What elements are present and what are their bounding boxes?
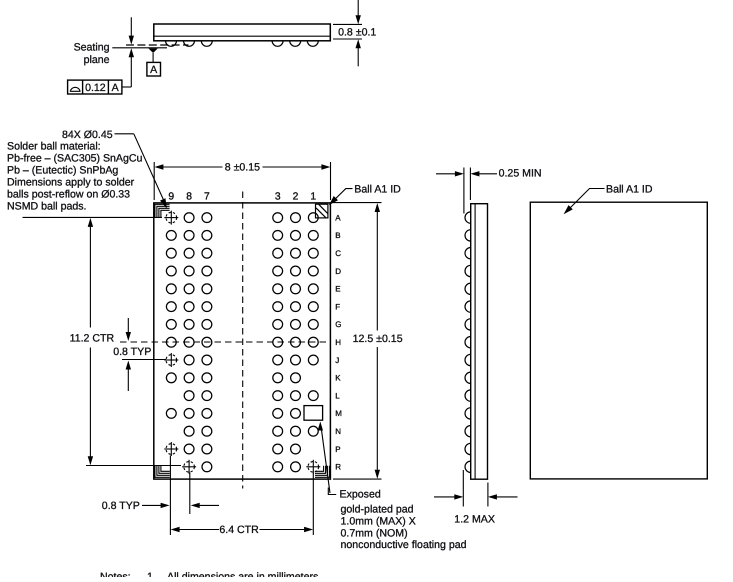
svg-text:B: B (335, 231, 340, 240)
svg-text:12.5 ±0.15: 12.5 ±0.15 (353, 333, 403, 345)
11.2 CTR dimension (left) (23, 217, 182, 465)
ball A1 ID corner mark (square + stripe) (316, 204, 329, 218)
solder balls (side view bottom) (166, 41, 319, 47)
svg-text:A: A (335, 213, 341, 222)
1.2 MAX dimension (434, 470, 518, 507)
svg-text:1: 1 (310, 192, 316, 203)
svg-text:1.0mm (MAX) X: 1.0mm (MAX) X (341, 515, 416, 527)
svg-text:6.4 CTR: 6.4 CTR (219, 524, 259, 536)
horizontal center line row H (dashed) (120, 341, 331, 343)
svg-text:Seating: Seating (74, 41, 110, 53)
svg-text:9: 9 (168, 192, 174, 203)
package body (edge view) (471, 204, 488, 480)
exposed pad callout (321, 426, 330, 494)
svg-text:A: A (150, 64, 158, 76)
svg-text:1.2 MAX: 1.2 MAX (454, 513, 495, 525)
svg-text:G: G (335, 320, 341, 329)
svg-text:0.8 TYP: 0.8 TYP (102, 500, 140, 512)
8 +-0.15 dimension (top) (154, 162, 330, 200)
svg-text:N: N (335, 427, 341, 436)
svg-text:3: 3 (275, 192, 281, 203)
svg-text:Solder ball material:: Solder ball material: (7, 141, 101, 153)
corner step mark bottom-right (315, 466, 330, 478)
svg-text:Pb-free – (SAC305) SnAgCu: Pb-free – (SAC305) SnAgCu (7, 153, 143, 165)
flatness symbol (70, 87, 81, 91)
svg-text:84X Ø0.45: 84X Ø0.45 (62, 129, 113, 141)
6.4 CTR dimension (bottom) (170, 456, 313, 536)
svg-text:H: H (335, 338, 341, 347)
column labels (168, 192, 316, 203)
dimension arrows at seating plane (130, 17, 132, 42)
package body (side view) (154, 24, 330, 41)
svg-text:nonconductive floating pad: nonconductive floating pad (341, 539, 467, 551)
package outline (bottom view) (154, 203, 331, 479)
svg-text:gold-plated pad: gold-plated pad (341, 504, 414, 516)
12.5 +-0.15 dimension (right of bottom view) (333, 203, 382, 480)
svg-text:C: C (335, 249, 341, 258)
svg-text:0.25 MIN: 0.25 MIN (499, 168, 542, 180)
corner step mark bottom-left (155, 466, 170, 478)
svg-text:F: F (335, 302, 340, 311)
svg-text:J: J (335, 356, 339, 365)
svg-text:K: K (335, 374, 341, 383)
svg-text:D: D (335, 267, 341, 276)
datum balls with crosshair (164, 211, 320, 474)
svg-text:0.8 TYP: 0.8 TYP (113, 346, 151, 358)
solder balls (edge view) (465, 212, 471, 473)
svg-text:plane: plane (84, 54, 110, 66)
vertical center line (dashed) (242, 192, 244, 489)
svg-text:7: 7 (204, 192, 210, 203)
seating plane dashed line (126, 44, 189, 46)
svg-text:Dimensions apply to solder: Dimensions apply to solder (7, 176, 135, 188)
0.25 MIN dimension (436, 168, 497, 214)
seating plane leader line (112, 47, 167, 49)
svg-text:P: P (335, 445, 340, 454)
svg-text:2: 2 (293, 192, 299, 203)
package outline (top view) (530, 202, 707, 479)
flatness feature control frame (68, 80, 122, 94)
svg-text:All dimensions are in millimet: All dimensions are in millimeters. (167, 571, 321, 577)
svg-text:NSMD ball pads.: NSMD ball pads. (7, 200, 86, 212)
svg-text:1.: 1. (147, 571, 156, 577)
svg-text:Ball A1 ID: Ball A1 ID (354, 183, 401, 195)
svg-text:E: E (335, 285, 340, 294)
svg-text:M: M (335, 409, 342, 418)
row labels (335, 213, 342, 471)
svg-text:11.2 CTR: 11.2 CTR (70, 333, 115, 345)
svg-text:Exposed: Exposed (340, 489, 381, 501)
svg-text:0.7mm (NOM): 0.7mm (NOM) (341, 527, 408, 539)
svg-text:A: A (112, 82, 120, 94)
svg-text:balls post-reflow on Ø0.33: balls post-reflow on Ø0.33 (7, 188, 130, 200)
svg-text:Ball A1 ID: Ball A1 ID (606, 183, 653, 195)
svg-text:0.8 ±0.1: 0.8 ±0.1 (338, 26, 376, 38)
connector frame to arrow (122, 86, 131, 88)
svg-text:Pb – (Eutectic) SnPbAg: Pb – (Eutectic) SnPbAg (7, 164, 118, 176)
svg-text:Notes:: Notes: (100, 571, 131, 577)
solder balls grid (166, 213, 318, 472)
svg-text:R: R (335, 463, 341, 472)
svg-text:L: L (335, 391, 340, 400)
corner step mark top-left (155, 204, 170, 217)
svg-text:8: 8 (186, 192, 192, 203)
datum A box (147, 62, 161, 76)
datum A triangle flag (148, 48, 157, 53)
0.8 +-0.1 dimension (side view height) (333, 0, 362, 66)
svg-text:0.12: 0.12 (85, 82, 106, 94)
svg-text:8 ±0.15: 8 ±0.15 (225, 161, 260, 173)
exposed pad square at M1 (304, 406, 323, 421)
